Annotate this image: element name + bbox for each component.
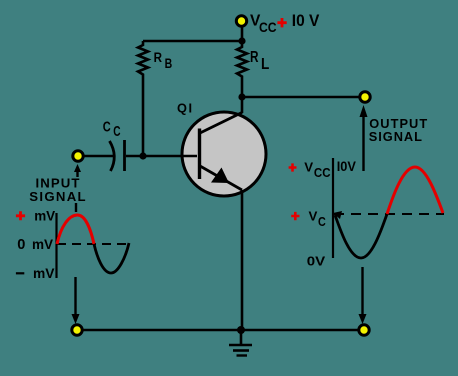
transistor Q1 circle [182, 112, 266, 196]
svg-text:I0 V: I0 V [292, 12, 320, 30]
svg-text:SIGNAL: SIGNAL [29, 189, 87, 204]
svg-text:mV: mV [32, 236, 54, 252]
svg-text:R: R [250, 49, 259, 66]
svg-text:C: C [113, 124, 121, 140]
label RL [250, 49, 269, 73]
label +Vc [291, 209, 326, 229]
output waveform axis [332, 158, 334, 258]
svg-text:C: C [103, 120, 111, 136]
input waveform zero dashed line [57, 243, 132, 245]
svg-text:mV: mV [34, 207, 56, 223]
wire ground rail [72, 329, 367, 332]
ground symbol [229, 330, 252, 356]
capacitor CC curved plate [110, 141, 115, 171]
wire base lead [126, 155, 197, 158]
label RB [154, 50, 173, 71]
tick above input waveform [75, 203, 77, 212]
label Vcc +10V [250, 12, 320, 35]
arrow from INPUT label up to input node [74, 164, 81, 177]
svg-text:R: R [154, 50, 163, 65]
svg-text:I0V: I0V [337, 159, 357, 174]
wire emitter down to ground rail [241, 190, 244, 330]
wire collector to output node [242, 96, 365, 99]
output waveform start arrowhead at axis [333, 211, 342, 219]
output waveform negative half (black) [335, 214, 387, 258]
junction base node [139, 152, 146, 159]
label CC [103, 120, 121, 141]
wire collector vertical into transistor [241, 97, 244, 113]
label -mV [16, 265, 55, 281]
resistor RB [138, 41, 148, 156]
capacitor CC straight plate [123, 140, 126, 171]
svg-text:CC: CC [259, 20, 277, 35]
svg-text:0: 0 [17, 237, 25, 253]
svg-text:QI: QI [177, 101, 194, 116]
label +Vcc 10V [289, 159, 357, 180]
arrow from OUTPUT label line up to output node [360, 105, 368, 171]
node output terminal (yellow) [360, 92, 370, 102]
node ground-rail right terminal (yellow) [359, 325, 369, 335]
junction collector node [238, 93, 245, 100]
svg-text:INPUT: INPUT [36, 175, 81, 190]
junction at top rail [238, 37, 245, 44]
input waveform negative half (black) [94, 243, 129, 273]
arrow from output waveform down to ground rail [359, 267, 367, 324]
label +mV [16, 207, 56, 223]
wire input node to capacitor [80, 155, 115, 158]
svg-text:0V: 0V [307, 254, 326, 269]
transistor Q1 emitter arrow [211, 168, 229, 184]
svg-text:V: V [309, 209, 318, 224]
junction ground node [237, 326, 245, 334]
svg-text:C: C [318, 214, 326, 229]
input waveform positive half (red) [57, 215, 94, 244]
svg-text:L: L [261, 56, 269, 73]
transistor Q1 base bar [198, 129, 201, 180]
label 0mV [17, 236, 53, 253]
node ground-rail left terminal (yellow) [72, 325, 82, 335]
input waveform axis [55, 213, 57, 278]
svg-text:V: V [304, 160, 313, 175]
transistor Q1 collector lead [200, 113, 242, 134]
svg-text:mV: mV [33, 265, 55, 281]
svg-text:SIGNAL: SIGNAL [369, 129, 423, 144]
transistor Q1 emitter lead [200, 166, 242, 190]
node input terminal (yellow) [73, 151, 83, 161]
svg-text:CC: CC [314, 165, 331, 180]
svg-text:B: B [165, 56, 173, 71]
arrow from input waveform down to ground rail [72, 277, 80, 324]
wire Vcc terminal drop [241, 24, 244, 41]
output waveform positive half (red) [387, 167, 443, 214]
wire top rail from RB top to Vcc junction [143, 40, 242, 43]
output waveform Vc dashed line [334, 213, 444, 215]
node Vcc terminal (yellow) [236, 16, 246, 26]
resistor RL [237, 41, 247, 97]
